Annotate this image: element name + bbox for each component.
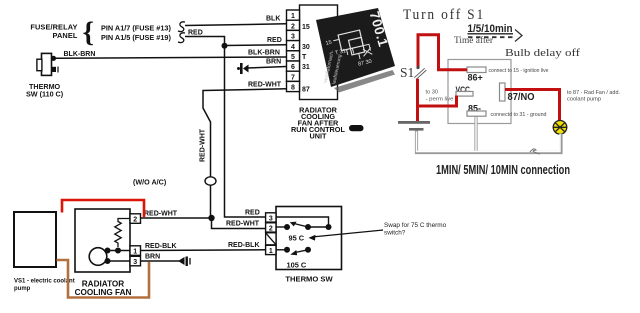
wire red 87 to bulb	[505, 90, 560, 121]
svg-text:15: 15	[302, 24, 310, 31]
thermo switch box S2	[276, 207, 342, 270]
svg-text:Swap for 75 C thermo: Swap for 75 C thermo	[384, 222, 447, 229]
wire thermo 105C row	[276, 249, 287, 251]
relay box K1	[448, 60, 511, 124]
fuse symbol F1	[178, 22, 185, 32]
dashed arrow time	[468, 36, 514, 38]
node dots fan	[105, 248, 111, 254]
svg-text:Time after: Time after	[454, 35, 494, 46]
fuse symbol F2	[178, 33, 185, 43]
fan box M1	[75, 209, 130, 272]
svg-text:1MIN/ 5MIN/ 10MIN connection: 1MIN/ 5MIN/ 10MIN connection	[436, 163, 570, 177]
svg-text:Turn off S1: Turn off S1	[403, 7, 485, 23]
pin 1	[287, 10, 300, 20]
relay photo	[313, 8, 395, 93]
switch S1 lever	[416, 66, 419, 69]
ground G1	[398, 121, 430, 124]
svg-text:PIN A1/7 (FUSE #13): PIN A1/7 (FUSE #13)	[101, 24, 171, 33]
svg-text:switch?: switch?	[384, 230, 406, 237]
svg-text:UNIT: UNIT	[309, 132, 327, 141]
svg-text:Bulb delay off: Bulb delay off	[505, 47, 580, 59]
label RADIATOR COOLING FAN AFTER RUN CONTROL UNIT	[291, 106, 345, 141]
node junction RED-WHT	[208, 215, 214, 221]
svg-text:THERMO SW: THERMO SW	[285, 275, 333, 284]
annotation arrow	[312, 230, 383, 237]
svg-text:RED-WHT: RED-WHT	[200, 128, 207, 162]
pin 5	[287, 51, 300, 61]
svg-text:3: 3	[133, 259, 137, 266]
svg-text:30: 30	[302, 44, 310, 51]
svg-text:RED-WHT: RED-WHT	[144, 211, 178, 218]
svg-text:95 C: 95 C	[289, 234, 305, 243]
svg-text:BRN: BRN	[145, 254, 160, 261]
svg-text:105 C: 105 C	[287, 261, 307, 270]
connector key diagonal	[266, 233, 276, 245]
label RADIATOR COOLING FAN	[75, 280, 132, 298]
fan pin 1	[130, 246, 141, 256]
svg-text:1: 1	[291, 13, 295, 20]
pin 8	[287, 81, 300, 91]
switch 95C contacts	[284, 224, 290, 230]
ink blob	[349, 125, 364, 131]
svg-text:1: 1	[269, 248, 273, 255]
thermo pin 1	[266, 245, 276, 254]
svg-text:coolant pump: coolant pump	[567, 97, 601, 103]
fan pin 2	[130, 214, 141, 224]
wire thermo internal top	[276, 217, 329, 227]
pump box VS1	[14, 212, 56, 267]
wire red S1 to 86	[418, 35, 467, 70]
svg-text:2: 2	[291, 23, 295, 30]
svg-text:86+: 86+	[468, 73, 483, 83]
svg-text:SW (110 C): SW (110 C)	[26, 90, 64, 99]
annotation swap for 75C	[384, 222, 447, 237]
note to 87 rad fan	[567, 90, 620, 103]
svg-text:31: 31	[302, 64, 310, 71]
wire brown fan to VS1	[57, 260, 150, 298]
motor M	[89, 248, 107, 266]
fan pin 3	[130, 256, 141, 266]
switch 105C contacts	[284, 247, 290, 253]
svg-text:PIN A1/5 (FUSE #19): PIN A1/5 (FUSE #19)	[101, 33, 171, 42]
wire RED-WHT to fan pin2	[140, 217, 212, 219]
svg-text:1: 1	[133, 249, 137, 256]
thermo pin 2	[266, 223, 276, 232]
svg-text:6: 6	[291, 64, 295, 71]
bulb L1	[553, 121, 567, 135]
ground fan BRN	[178, 257, 190, 267]
svg-text:2: 2	[133, 217, 137, 224]
svg-text:VS1 - electric coolant: VS1 - electric coolant	[14, 279, 75, 285]
wire RED-WHT to thermo pin2	[212, 218, 266, 229]
label FUSE/RELAY PANEL	[30, 23, 78, 41]
svg-text:8: 8	[291, 85, 295, 92]
svg-text:RED-BLK: RED-BLK	[228, 242, 260, 249]
terminal 86	[467, 67, 486, 73]
svg-text:BRN: BRN	[266, 59, 281, 66]
label THERMO SW (110 C)	[26, 82, 64, 99]
svg-text:87: 87	[302, 87, 310, 94]
resistor R1	[115, 219, 130, 248]
svg-text:3: 3	[291, 34, 295, 41]
label VS1 - electric coolant pump	[14, 279, 75, 293]
wire gray loop bottom	[417, 117, 562, 153]
svg-text:RED: RED	[245, 210, 260, 217]
note to 30 perm live	[426, 90, 454, 103]
svg-text:4: 4	[291, 44, 295, 51]
svg-text:S1: S1	[400, 65, 414, 80]
pin 6	[287, 61, 300, 71]
wire thermo 95C row	[276, 226, 287, 228]
svg-text:7: 7	[291, 74, 295, 81]
svg-text:RED-WHT: RED-WHT	[248, 82, 282, 89]
terminal 87	[500, 83, 506, 101]
connector W/O A/C ellipse	[205, 177, 216, 185]
pin 2	[287, 20, 300, 30]
svg-text:(W/O A/C): (W/O A/C)	[133, 178, 167, 187]
svg-text:87/NO: 87/NO	[508, 91, 535, 103]
svg-text:{: {	[83, 17, 94, 49]
switch 95C lever	[294, 224, 308, 228]
svg-text:3: 3	[269, 216, 273, 223]
svg-text:RED: RED	[267, 37, 282, 44]
svg-text:BLK-BRN: BLK-BRN	[248, 50, 280, 57]
svg-text:pump: pump	[14, 286, 31, 292]
wire RED fuse19 to vertical	[185, 37, 225, 46]
svg-text:BLK-BRN: BLK-BRN	[64, 51, 96, 58]
svg-text:BLK: BLK	[266, 16, 280, 23]
pin 7	[287, 71, 300, 81]
svg-text:2: 2	[269, 226, 273, 233]
svg-text:COOLING FAN: COOLING FAN	[75, 288, 132, 297]
wire BLK-BRN	[56, 57, 287, 58]
svg-text:connect to 15 - ignition live: connect to 15 - ignition live	[489, 68, 549, 74]
svg-text:connectd to 31 - ground: connectd to 31 - ground	[491, 112, 547, 118]
wire BLK fuse13 to pin2	[185, 24, 287, 26]
ground BRN stub	[237, 63, 249, 74]
wire BRN from fan pin3	[140, 260, 179, 262]
svg-text:to 30: to 30	[426, 90, 439, 96]
svg-text:RED-WHT: RED-WHT	[226, 221, 260, 228]
pin 4	[287, 41, 300, 51]
wire red S1 down	[418, 79, 457, 106]
wire RED-BLK fan to thermo	[140, 249, 266, 252]
wire BRN to pin6	[247, 67, 287, 69]
svg-text:PANEL: PANEL	[53, 31, 78, 40]
wire RED to pin4	[225, 44, 287, 47]
squiggle mark	[530, 149, 540, 154]
wire red to ground	[416, 104, 419, 121]
wire RED-WHT from pin8	[203, 89, 287, 177]
svg-text:T: T	[302, 54, 307, 61]
node junction RED	[222, 43, 228, 49]
switch 105C lever	[295, 250, 308, 253]
wire red VS1 to fan	[62, 200, 144, 217]
wire RED-WHT below ellipse	[210, 185, 212, 218]
wire fan internal pin1	[106, 250, 130, 252]
svg-text:to 87 - Rad Fan / add.: to 87 - Rad Fan / add.	[567, 90, 620, 96]
pin 3	[287, 30, 300, 40]
control unit box U1	[300, 5, 338, 100]
svg-text:5: 5	[291, 54, 295, 61]
svg-text:RED: RED	[188, 30, 203, 37]
thermo pin 3	[266, 213, 276, 222]
thermo switch 110C symbol	[37, 53, 58, 75]
wire RED vertical to thermo pin3	[225, 46, 266, 217]
svg-text:RED-BLK: RED-BLK	[145, 243, 177, 250]
wire fan internal pin3	[106, 260, 130, 262]
svg-text:- perm live: - perm live	[426, 97, 454, 103]
